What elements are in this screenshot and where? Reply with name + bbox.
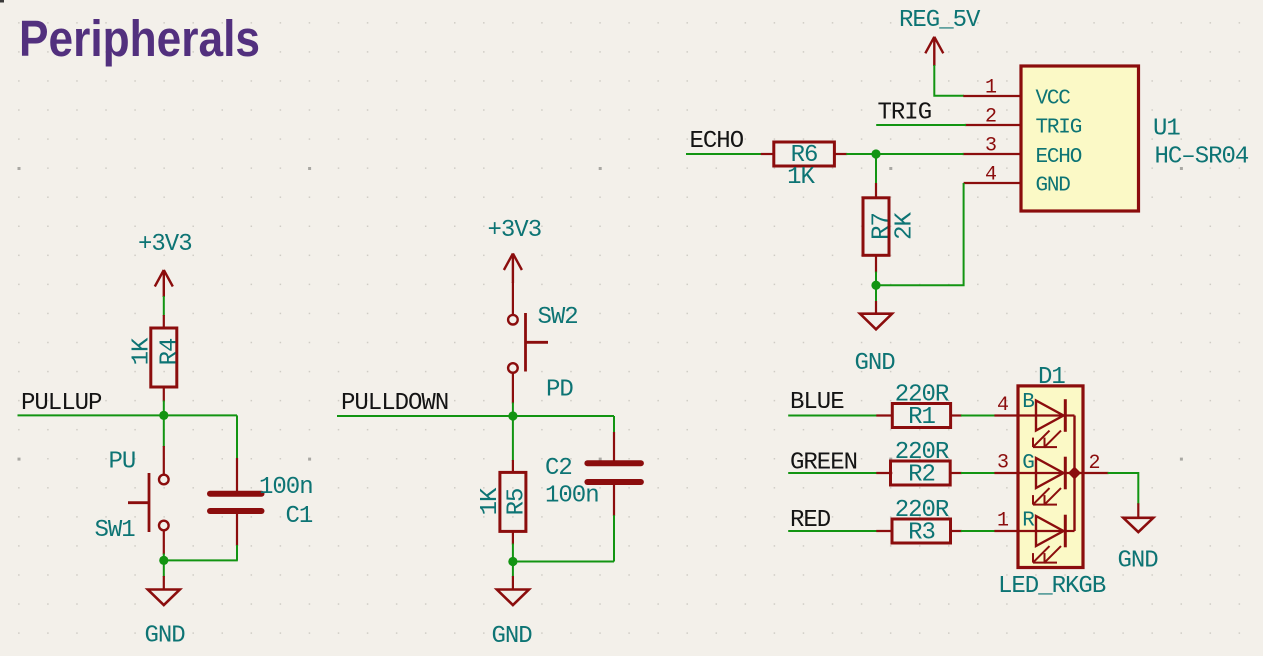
wire R3 to pin 1 — [961, 530, 996, 532]
svg-text:C2: C2 — [545, 455, 572, 482]
svg-text:RED: RED — [790, 507, 831, 534]
capacitor C1 — [210, 458, 262, 546]
junction bottom node left — [159, 556, 168, 565]
svg-text:+3V3: +3V3 — [138, 231, 192, 258]
svg-text:R2: R2 — [908, 462, 935, 489]
svg-text:1: 1 — [985, 77, 997, 100]
LED D1 body LED_RKGB — [1018, 386, 1083, 568]
wire bottom node to C1 — [164, 559, 238, 561]
wire SW2 to node PULLDOWN — [512, 403, 514, 417]
wire R2 to pin 3 — [961, 472, 996, 474]
power symbol +3V3 arrow (middle) — [504, 254, 522, 284]
junction node ECHO — [871, 149, 880, 158]
wire node to GND (sensor) — [875, 285, 877, 302]
svg-text:G: G — [1022, 452, 1034, 475]
wire node PULLUP to C1 — [236, 415, 238, 459]
pin 3 G of D1 — [994, 452, 1034, 475]
wire BLUE — [788, 415, 877, 417]
svg-text:PD: PD — [546, 377, 573, 404]
svg-text:1: 1 — [997, 510, 1009, 533]
junction node PULLDOWN — [508, 411, 517, 420]
svg-text:SW2: SW2 — [538, 304, 578, 331]
junction node R7-GND — [871, 281, 880, 290]
svg-text:1K: 1K — [787, 164, 815, 191]
wire RED — [788, 530, 877, 532]
cathode link B — [1065, 414, 1074, 416]
svg-text:+3V3: +3V3 — [488, 217, 542, 244]
svg-text:HC–SR04: HC–SR04 — [1155, 144, 1249, 171]
svg-text:B: B — [1022, 391, 1034, 414]
svg-text:REG_5V: REG_5V — [899, 7, 981, 34]
power symbol REG_5V arrow — [925, 37, 943, 66]
svg-text:PULLUP: PULLUP — [21, 390, 102, 417]
pin 2 of D1 — [1083, 452, 1109, 475]
svg-text:R: R — [1022, 509, 1035, 532]
svg-text:Peripherals: Peripherals — [19, 10, 260, 67]
svg-text:R1: R1 — [908, 404, 935, 431]
wire node PULLDOWN to C2 — [613, 416, 615, 433]
cathode link G to pin 2 — [1065, 472, 1083, 474]
wire GREEN — [788, 472, 877, 474]
resistor R3 — [876, 519, 962, 543]
svg-text:ECHO: ECHO — [1036, 146, 1082, 169]
wire PULLDOWN horizontal — [337, 415, 614, 417]
LED chip red — [1018, 515, 1065, 563]
svg-text:3: 3 — [985, 135, 997, 158]
ground symbol (sensor) — [860, 301, 892, 329]
wire node to R7 — [875, 154, 877, 184]
resistor R4 — [151, 315, 177, 402]
svg-text:U1: U1 — [1153, 115, 1180, 142]
pin 1 VCC of U1 — [963, 77, 1070, 111]
svg-text:1K: 1K — [477, 487, 504, 515]
svg-text:BLUE: BLUE — [790, 389, 844, 416]
svg-text:GND: GND — [1036, 175, 1071, 198]
svg-text:TRIG: TRIG — [878, 100, 932, 127]
wire REG_5V to pin 1 — [934, 65, 964, 96]
pin 4 B of D1 — [994, 391, 1034, 417]
wire node to SW1 — [163, 415, 165, 447]
wire PULLUP horizontal — [18, 414, 238, 416]
ground symbol (left) — [148, 576, 180, 605]
svg-text:ECHO: ECHO — [690, 128, 744, 155]
svg-text:3: 3 — [997, 452, 1009, 475]
svg-text:R4: R4 — [157, 338, 184, 365]
svg-text:GND: GND — [855, 350, 896, 377]
LED chip green — [1018, 457, 1065, 505]
pin 4 GND of U1 — [964, 164, 1071, 198]
svg-text:2: 2 — [985, 106, 997, 129]
svg-text:100n: 100n — [545, 483, 599, 510]
pin 1 R of D1 — [994, 509, 1035, 532]
cathode bus of D1 — [1073, 416, 1075, 532]
capacitor C2 — [587, 432, 641, 516]
svg-text:PULLDOWN: PULLDOWN — [341, 390, 448, 417]
ground symbol (middle) — [497, 576, 529, 605]
LED chip blue — [1018, 399, 1065, 447]
svg-text:VCC: VCC — [1036, 88, 1071, 111]
power symbol +3V3 arrow (left) — [155, 270, 173, 297]
resistor R2 — [876, 461, 962, 485]
wire bottom node to C2 branch — [513, 561, 614, 563]
svg-text:LED_RKGB: LED_RKGB — [998, 573, 1106, 600]
pin 3 ECHO of U1 — [963, 135, 1082, 169]
svg-text:GND: GND — [492, 623, 533, 650]
wire R4 to node PULLUP — [163, 401, 165, 416]
junction node PULLUP — [159, 411, 168, 420]
wire +3V3 to R4 — [163, 296, 165, 316]
wire node to pin 4 — [876, 183, 964, 285]
switch SW2 push button — [508, 282, 548, 404]
svg-text:SW1: SW1 — [95, 517, 136, 544]
svg-text:100n: 100n — [259, 474, 313, 501]
wire pin 2 to GND — [1108, 473, 1139, 504]
wire R6 to node — [846, 153, 876, 155]
svg-text:4: 4 — [985, 164, 997, 187]
svg-text:GND: GND — [145, 623, 186, 650]
resistor R7 — [863, 183, 889, 273]
wire R1 to pin 4 — [961, 415, 996, 417]
junction diamond pin 2 — [1068, 467, 1081, 480]
pin 2 TRIG of U1 — [965, 106, 1082, 140]
svg-text:2: 2 — [1089, 452, 1101, 475]
svg-text:1K: 1K — [129, 337, 156, 365]
wire C1 to bottom node — [236, 545, 238, 560]
junction bottom node middle — [508, 557, 517, 566]
wire TRIG — [876, 124, 966, 126]
wire node to R5 — [512, 416, 514, 461]
svg-text:TRIG: TRIG — [1036, 117, 1082, 140]
wire R5 to bottom node — [512, 544, 514, 562]
wire node to pin 3 — [876, 153, 964, 155]
wire R7 to node GND — [875, 272, 877, 286]
wire C2 to bottom node — [613, 515, 615, 561]
resistor R6 — [761, 142, 848, 166]
svg-text:R5: R5 — [504, 489, 531, 516]
svg-text:GND: GND — [1118, 548, 1159, 575]
resistor R5 — [500, 460, 526, 545]
resistor R1 — [876, 404, 962, 428]
wire SW1 to bottom node — [163, 554, 165, 561]
svg-text:R3: R3 — [908, 520, 935, 547]
svg-text:4: 4 — [997, 394, 1009, 417]
wire bottom node to GND (left) — [163, 560, 165, 577]
cathode link R — [1065, 530, 1074, 532]
svg-text:C1: C1 — [286, 503, 313, 530]
wire bottom node to GND (middle) — [512, 562, 514, 578]
ground symbol (LED) — [1123, 503, 1153, 532]
IC U1 HC-SR04 body — [1021, 66, 1139, 211]
svg-text:PU: PU — [109, 449, 136, 476]
wire ECHO — [686, 153, 762, 155]
switch SW1 push button — [128, 446, 169, 555]
svg-text:2K: 2K — [892, 212, 919, 240]
